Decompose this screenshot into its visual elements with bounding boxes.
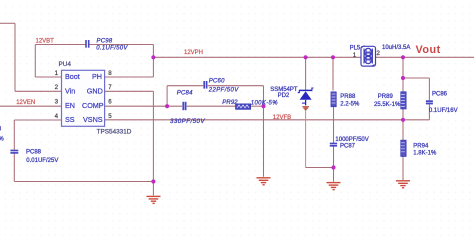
ground G1 under IC gnd: [147, 196, 161, 203]
svg-text:PR89: PR89: [378, 94, 394, 100]
svg-text:%: %: [0, 136, 4, 142]
wire Vin pin2: [15, 90, 62, 92]
svg-text:PC86: PC86: [432, 91, 448, 97]
svg-text:COMP: COMP: [82, 101, 104, 110]
svg-text:1000PF/50V: 1000PF/50V: [335, 137, 368, 143]
junction PR88 branch on PH rail: [331, 55, 335, 59]
junction PC60 branch on COMP line: [165, 104, 169, 108]
wire diode gnd to cap gnd: [306, 167, 334, 169]
junction PR89 branch on Vout rail: [401, 55, 405, 59]
junction diode-gnd meets PC87-gnd: [331, 165, 335, 169]
ground G2 comp network: [257, 178, 271, 185]
inductor PL5: [361, 46, 376, 67]
junction SS loop meets GND vertical: [151, 179, 155, 183]
svg-text:1.8K-1%: 1.8K-1%: [413, 151, 437, 157]
wire boot pin1: [35, 76, 61, 78]
svg-text:PR88: PR88: [340, 94, 356, 100]
wire 12VPH rail: [153, 56, 361, 58]
wire PR88 to PC87: [333, 107, 335, 143]
capacitor PC84: [183, 102, 185, 110]
wire bootstrap right vertical: [152, 45, 154, 78]
capacitor PC87: [330, 144, 337, 146]
ground G3 under PC87: [327, 183, 341, 190]
resistor PR88: [331, 92, 336, 107]
svg-text:TPS54331D: TPS54331D: [97, 129, 132, 136]
wire PC86 branch top: [403, 78, 429, 100]
capacitor PC88: [10, 151, 18, 153]
svg-text:12VFB: 12VFB: [273, 115, 291, 121]
wire SS bottom: [14, 181, 153, 183]
wire PH pin8: [105, 76, 154, 78]
wire PC87 to ground: [333, 146, 335, 181]
svg-text:0.1UF/16V: 0.1UF/16V: [429, 108, 458, 114]
svg-text:8: 8: [108, 70, 112, 77]
wire 12V input top-left horizontal: [0, 22, 15, 24]
wire GND vertical: [152, 91, 154, 195]
ground G4 under PR94: [396, 181, 410, 188]
junction feedback divider node: [401, 118, 405, 122]
wire PC60 loop right vertical: [263, 86, 265, 107]
svg-text:PC98: PC98: [97, 39, 113, 45]
svg-text:330PF/50V: 330PF/50V: [170, 118, 205, 125]
svg-text:12VEN: 12VEN: [16, 100, 35, 106]
diode PD2 schottky: [298, 88, 314, 105]
junction PR92/PC60/ground node: [261, 104, 265, 108]
svg-text:12VBT: 12VBT: [36, 39, 55, 45]
svg-text:Boot: Boot: [65, 72, 80, 81]
svg-text:0.1UF/50V: 0.1UF/50V: [96, 45, 128, 51]
svg-text:PH: PH: [92, 72, 102, 81]
pin names: [65, 72, 104, 124]
wire diode top vertical: [305, 57, 307, 90]
capacitor PC86: [426, 101, 433, 103]
wire SS vertical: [13, 120, 15, 182]
junction diode branch on PH rail: [304, 55, 308, 59]
svg-text:1: 1: [353, 52, 357, 59]
svg-text:PC88: PC88: [26, 149, 42, 155]
wire VSNS 12VFB line: [105, 119, 430, 121]
svg-text:1: 1: [55, 70, 59, 77]
junction PC86 branch tap: [401, 76, 405, 80]
svg-text:2: 2: [376, 50, 380, 57]
svg-text:VSNS: VSNS: [83, 115, 103, 124]
wire comp ground drop: [263, 106, 265, 177]
svg-text:PC84: PC84: [177, 91, 193, 97]
svg-text:22PF/50V: 22PF/50V: [208, 88, 239, 94]
svg-text:8: 8: [0, 127, 2, 133]
resistor PR92: [236, 104, 251, 109]
wire 12VEN to pin3: [0, 105, 62, 107]
resistor PR94: [401, 140, 406, 156]
svg-text:PU4: PU4: [59, 61, 72, 68]
wire PC86 bottom: [428, 105, 430, 120]
wire diode anode down: [305, 110, 307, 168]
svg-text:PC87: PC87: [340, 143, 356, 149]
svg-text:25.5K-1%: 25.5K-1%: [374, 102, 401, 108]
svg-text:5: 5: [108, 113, 112, 120]
wire PR89 bottom to FB: [402, 109, 404, 140]
svg-text:7: 7: [108, 84, 112, 91]
svg-text:EN: EN: [65, 101, 75, 110]
svg-text:4: 4: [55, 113, 59, 120]
ground G5 small under diode: [302, 107, 309, 110]
svg-text:Vout: Vout: [416, 44, 441, 56]
svg-text:PD2: PD2: [278, 93, 290, 99]
wire bootstrap top: [35, 44, 153, 46]
wire GND pin7: [105, 90, 154, 92]
wire PR94 to ground: [402, 156, 404, 180]
svg-text:Vin: Vin: [65, 86, 75, 95]
svg-text:12VPH: 12VPH: [184, 50, 203, 56]
pin numbers: [55, 70, 113, 120]
svg-text:SS: SS: [65, 115, 75, 124]
wire COMP after PR92: [251, 105, 264, 107]
resistor PR89: [401, 92, 406, 109]
wire PC60 loop top: [167, 85, 263, 87]
wire PC60 loop left vertical: [166, 86, 168, 107]
svg-text:2.2-5%: 2.2-5%: [340, 101, 360, 107]
wire PR88 branch top: [332, 57, 334, 90]
wire 12V input vertical: [14, 23, 16, 91]
wire PR89 branch top: [402, 57, 404, 91]
svg-text:PR92: PR92: [222, 100, 238, 106]
svg-text:PC60: PC60: [209, 79, 225, 85]
capacitor PC98: [86, 40, 89, 48]
svg-text:GND: GND: [87, 86, 103, 95]
svg-text:10uH/3.5A: 10uH/3.5A: [382, 45, 410, 51]
junction 12VPH tap on bootstrap vertical: [151, 55, 155, 59]
svg-text:0.01UF/25V: 0.01UF/25V: [26, 158, 58, 164]
svg-text:PL5: PL5: [350, 45, 361, 51]
svg-text:PR94: PR94: [413, 144, 429, 150]
IC PU4 TPS54331D body: [62, 70, 105, 126]
wire boot vertical left: [34, 45, 36, 78]
wire COMP pin6: [105, 105, 236, 107]
svg-text:3: 3: [55, 99, 59, 106]
svg-text:6: 6: [108, 99, 112, 106]
svg-text:100K-5%: 100K-5%: [251, 100, 278, 106]
wire Vout rail: [375, 56, 474, 58]
wire SS pin4: [14, 119, 61, 121]
svg-text:2: 2: [55, 84, 59, 91]
capacitor PC60: [204, 81, 206, 89]
